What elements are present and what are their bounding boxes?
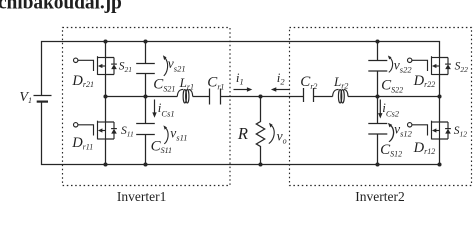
svg-text:Dr22: Dr22: [413, 73, 436, 89]
svg-text:i1: i1: [236, 70, 244, 87]
svg-text:V1: V1: [19, 90, 32, 105]
svg-text:vs22: vs22: [394, 57, 413, 74]
svg-text:chibakoudai.jp: chibakoudai.jp: [0, 0, 122, 14]
svg-text:S22: S22: [455, 61, 469, 75]
svg-text:iCs1: iCs1: [158, 100, 175, 119]
svg-text:vs12: vs12: [394, 122, 413, 139]
svg-text:Inverter1: Inverter1: [117, 189, 166, 203]
svg-text:CS22: CS22: [381, 78, 403, 95]
svg-text:vs11: vs11: [170, 126, 187, 143]
svg-text:Inverter2: Inverter2: [355, 189, 404, 203]
svg-text:CS21: CS21: [153, 77, 175, 94]
svg-text:Cr1: Cr1: [207, 75, 224, 92]
svg-text:S12: S12: [454, 125, 468, 139]
svg-text:Lr2: Lr2: [333, 74, 348, 91]
svg-text:CS11: CS11: [151, 138, 172, 155]
svg-text:vo: vo: [277, 129, 287, 146]
svg-text:Dr12: Dr12: [413, 140, 436, 156]
svg-text:vs21: vs21: [168, 56, 186, 73]
svg-text:R: R: [237, 124, 248, 143]
svg-text:Dr11: Dr11: [71, 135, 93, 151]
svg-text:CS12: CS12: [380, 142, 402, 159]
svg-text:S21: S21: [119, 61, 132, 75]
svg-text:iCs2: iCs2: [382, 100, 400, 119]
svg-text:Cr2: Cr2: [300, 74, 317, 91]
svg-text:i2: i2: [277, 70, 286, 87]
svg-text:Dr21: Dr21: [71, 73, 94, 89]
svg-text:S11: S11: [121, 125, 134, 139]
svg-text:Lr1: Lr1: [179, 75, 194, 92]
